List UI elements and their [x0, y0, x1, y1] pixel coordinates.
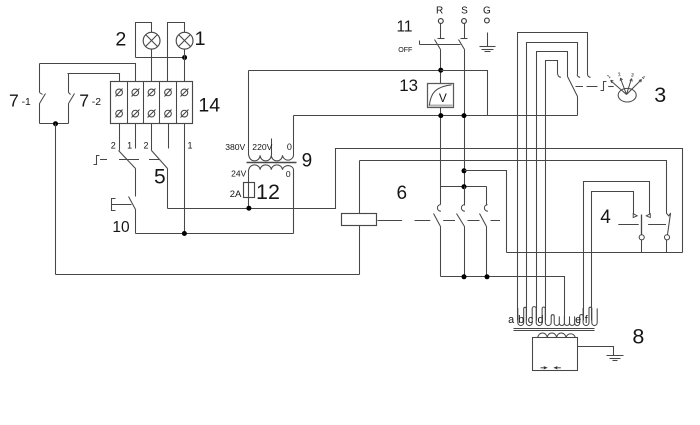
node: voltmeter bottom junction	[438, 113, 443, 118]
wire: R pole down lead	[440, 50, 442, 84]
wire: 7-1 top to terminal block cell 2	[40, 64, 136, 82]
terminal block 14	[111, 82, 221, 124]
selector 3 rotary handle symbol	[576, 72, 667, 107]
svg-text:11: 11	[396, 19, 412, 36]
switch 4 pole 2 blade and terminal	[664, 214, 670, 253]
wire: terminal cell3 down lead, label 2	[151, 124, 153, 151]
transformer 9 (control transformer 380/220 : 24V)	[225, 71, 312, 234]
svg-text:380V: 380V	[225, 142, 245, 152]
svg-text:7: 7	[9, 90, 19, 110]
wire: switch5 pole1 bottom to switch10	[135, 169, 137, 197]
wire: contactor top bus	[441, 186, 487, 188]
node: lamp1 bottom junction	[182, 55, 187, 60]
switch 4 (voltage changeover) outer loop to tap e	[584, 182, 650, 321]
contactor 6 coil	[342, 161, 408, 275]
contactor 6 main contact pole 3	[480, 187, 488, 277]
wire: S pole long down lead	[464, 50, 466, 206]
svg-text:2: 2	[115, 28, 126, 50]
switch 4 contact arrowheads	[633, 214, 650, 218]
node: switch 7 common junction	[53, 121, 58, 126]
svg-text:-1: -1	[22, 97, 31, 108]
lamp H2 (signal lamp, label 2)	[115, 28, 160, 50]
lamp H1 (signal lamp, label 1)	[176, 28, 205, 50]
wire: lamp 1 bottom lead	[184, 50, 186, 82]
wire: transformer9 secondary 0 lead	[293, 170, 295, 234]
svg-text:2A: 2A	[230, 189, 242, 200]
wire: lamp2 loop to lamp1 bottom	[136, 57, 185, 59]
wire: speed selector loop 2 to tap b	[527, 43, 578, 321]
wire: voltmeter cross line to selector	[294, 115, 578, 117]
switch 4 pole 1 blade and terminal	[639, 215, 644, 253]
wire: lamp 2 feed loop	[136, 23, 152, 58]
wire: coil top feed to switch4 pole2	[360, 161, 667, 214]
svg-text:4: 4	[600, 207, 611, 228]
wire: long left drop from switch 7 junction	[55, 124, 57, 275]
switch 10 (pushbutton)	[112, 197, 136, 237]
wire: terminal cell4 down lead	[168, 124, 170, 149]
svg-text:-2: -2	[92, 97, 101, 108]
svg-text:8: 8	[632, 325, 644, 349]
node: S line junction at voltmeter rail	[462, 113, 467, 118]
svg-text:9: 9	[302, 151, 313, 172]
svg-text:c: c	[528, 314, 534, 326]
node: bottom bus junction pole2	[462, 274, 467, 279]
svg-text:24V: 24V	[231, 169, 246, 179]
svg-text:0: 0	[287, 142, 292, 152]
switch 5 (two-pole changeover switch)	[94, 151, 168, 189]
svg-text:1: 1	[187, 140, 192, 150]
svg-text:1: 1	[127, 140, 132, 150]
svg-text:d: d	[537, 314, 543, 326]
node: cell5 drop junction	[182, 231, 187, 236]
wire: R junction to selector common	[441, 71, 488, 116]
svg-text:R: R	[436, 6, 443, 17]
switch 4 mechanical link (dashed)	[618, 224, 666, 226]
svg-text:2: 2	[111, 140, 116, 150]
transformer 8 secondary (movable coil box)	[533, 333, 578, 371]
svg-text:e: e	[575, 314, 581, 326]
wire: lamp 2 bottom lead	[151, 50, 153, 82]
node: contactor top bus junction	[462, 184, 467, 189]
svg-text:13: 13	[399, 76, 418, 95]
svg-text:a: a	[508, 314, 514, 326]
fuse 12 (2A)	[230, 180, 280, 209]
svg-text:6: 6	[397, 183, 408, 204]
switch 7-2 (limit switch contact)	[69, 74, 102, 124]
wire: switch10 bottom run to transformer9 secondary 0	[136, 233, 294, 235]
svg-text:7: 7	[79, 90, 89, 110]
contactor 6 main contact pole 1	[434, 187, 441, 277]
wire: contactor bottom bus to transformer8 center	[441, 277, 565, 321]
svg-text:0: 0	[286, 169, 291, 179]
contactor 6 main contact pole 2	[457, 187, 465, 277]
wire: speed selector loop 3 to tap c	[537, 52, 568, 321]
node: fuse bottom junction	[246, 206, 251, 211]
svg-text:3: 3	[654, 83, 666, 107]
wire: terminal cell2 down lead, label 1	[135, 124, 137, 149]
svg-text:3: 3	[630, 72, 634, 78]
selector 3 contact hooks	[558, 75, 591, 78]
svg-text:G: G	[483, 6, 491, 17]
terminal S	[461, 6, 469, 39]
wire: control line from switch5 pole2 to contactor branch	[168, 149, 683, 253]
wire: 7-2 top to terminal block cell 1	[68, 74, 120, 82]
wire: transformer9 primary 380V feed to R line	[249, 70, 441, 72]
wire: speed selector loop 4 to tap d	[546, 61, 558, 321]
voltmeter 13	[399, 76, 453, 108]
svg-text:b: b	[518, 314, 524, 326]
wire: lamp 1 feed loop to terminal 4	[168, 23, 185, 82]
switch 4 pole2 contact arrow tick	[667, 213, 671, 216]
wire: switch5 pole2 bottom drop	[167, 169, 169, 209]
node: S branch junction	[462, 168, 467, 173]
terminal R	[436, 6, 445, 39]
wire: 7-1/7-2 common bottom	[40, 123, 69, 125]
wire: S branch to switch4 bottom bus	[465, 171, 507, 253]
contactor mechanical link (dashed)	[378, 220, 501, 222]
node: R / voltmeter top junction	[438, 68, 443, 73]
ground symbol at transformer 8	[607, 356, 624, 361]
svg-text:1: 1	[606, 74, 612, 81]
svg-text:5: 5	[154, 165, 166, 188]
node: bottom bus junction pole3	[485, 274, 490, 279]
svg-text:14: 14	[198, 95, 220, 117]
wire: voltmeter bottom lead	[440, 108, 442, 187]
svg-text:OFF: OFF	[398, 46, 413, 54]
wire: transformer 8 output to earth	[578, 347, 614, 356]
transformer 8 tap labels a b c d e f	[508, 314, 589, 326]
svg-text:10: 10	[112, 219, 130, 236]
wire: terminal cell1 down lead, label 2	[119, 124, 121, 151]
svg-text:1: 1	[194, 28, 205, 50]
svg-text:2: 2	[617, 72, 621, 79]
svg-text:S: S	[461, 6, 468, 17]
switch 4 inner loop to tap f	[592, 192, 634, 321]
wire: terminal cell5 long drop, label 1	[184, 124, 186, 234]
switch 11 (main double-pole switch, OFF)	[396, 19, 464, 54]
svg-text:220V: 220V	[252, 142, 272, 152]
terminal G with earth	[480, 6, 496, 52]
svg-text:12: 12	[256, 180, 280, 204]
selector 3 blade and common lead	[568, 77, 578, 116]
switch 7-1 (limit switch contact)	[9, 64, 46, 124]
svg-text:V: V	[439, 91, 447, 105]
transformer 8 core	[514, 329, 595, 331]
transformer 8 primary winding with taps	[518, 307, 597, 326]
wire: switch 4 bottom bus	[507, 252, 683, 254]
wire: coil bottom return to switch7 drop	[56, 274, 360, 276]
svg-text:2: 2	[143, 140, 148, 150]
wire: speed selector loop 1 to tap a	[518, 33, 588, 321]
